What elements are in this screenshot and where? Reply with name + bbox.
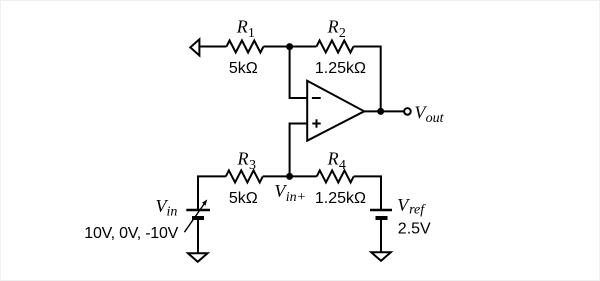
- svg-text:R: R: [236, 17, 248, 37]
- ground (under Vin): [188, 253, 208, 261]
- wire node A down to inverting input: [290, 47, 308, 99]
- value 5kΩ (R3): [229, 190, 258, 207]
- value 1.25kΩ (R4): [315, 190, 366, 207]
- node Vin+ junction dot: [286, 173, 293, 180]
- wire R2 to feedback corner and down to output node: [354, 47, 381, 112]
- wire Vin to ground: [197, 220, 199, 254]
- value 5kΩ (R1): [229, 60, 258, 77]
- ground (under Vref): [371, 252, 391, 260]
- resistor R3: [226, 170, 263, 182]
- output terminal circle: [404, 108, 411, 115]
- svg-text:in: in: [167, 204, 178, 219]
- svg-text:1: 1: [248, 26, 255, 41]
- label Vout: [414, 103, 444, 126]
- label Vin: [156, 196, 178, 219]
- wire R4 to Vref corner: [354, 176, 381, 210]
- wire arrow to R1: [199, 46, 226, 48]
- value 1.25kΩ (R2): [315, 60, 366, 77]
- op-amp U1: [307, 81, 364, 141]
- resistor R1: [227, 41, 264, 53]
- label R2: [327, 17, 346, 42]
- svg-text:3: 3: [249, 158, 256, 173]
- wire Vref to ground: [380, 220, 382, 253]
- label R4: [327, 149, 346, 174]
- source Vref 2.5V battery: [370, 210, 392, 218]
- wire op-amp output to terminal: [364, 110, 404, 112]
- svg-text:out: out: [426, 111, 445, 126]
- svg-text:in+: in+: [286, 190, 306, 205]
- svg-text:5kΩ: 5kΩ: [229, 60, 258, 77]
- svg-text:2: 2: [339, 26, 346, 41]
- label R1: [236, 17, 255, 42]
- resistor R2: [317, 41, 354, 53]
- svg-text:4: 4: [339, 158, 346, 173]
- svg-text:2.5V: 2.5V: [398, 220, 431, 237]
- label R3: [237, 149, 257, 174]
- wire V_in+ node up to non-inverting input: [290, 124, 308, 177]
- wire Vin top to R3: [198, 176, 226, 210]
- svg-text:ref: ref: [409, 203, 426, 218]
- svg-text:R: R: [327, 17, 339, 37]
- svg-text:1.25kΩ: 1.25kΩ: [315, 60, 366, 77]
- label 2.5V: [398, 220, 431, 237]
- wire R1 to node A: [264, 46, 317, 48]
- svg-text:1.25kΩ: 1.25kΩ: [315, 190, 366, 207]
- node A (junction dot R1/R2/inverting input): [286, 43, 293, 50]
- wire R3 to node Vin+: [263, 175, 317, 177]
- svg-text:R: R: [327, 149, 339, 169]
- label Vin+: [274, 181, 306, 205]
- svg-text:R: R: [237, 149, 249, 169]
- node output junction dot: [377, 108, 384, 115]
- resistor R4: [317, 170, 354, 182]
- arrow terminal (left input arrow): [190, 39, 199, 55]
- svg-text:10V, 0V, -10V: 10V, 0V, -10V: [84, 225, 178, 242]
- svg-text:5kΩ: 5kΩ: [229, 190, 258, 207]
- source Vin (variable battery): [184, 199, 210, 232]
- label Vref: [397, 195, 426, 218]
- label 10V, 0V, -10V: [84, 225, 178, 242]
